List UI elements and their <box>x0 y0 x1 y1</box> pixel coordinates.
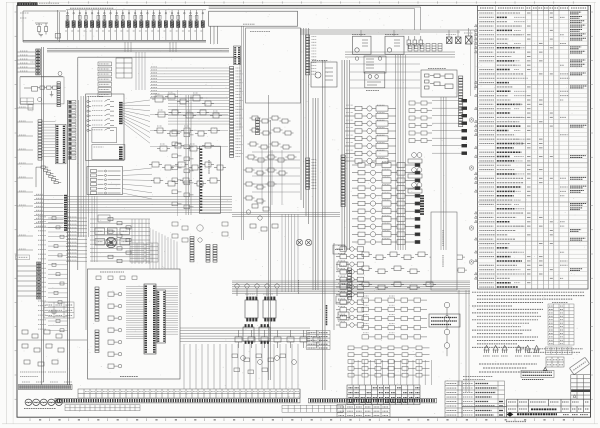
title block bottom right cells text <box>563 414 588 416</box>
relay block switch rows <box>87 100 114 132</box>
left feed wires to lamp array <box>58 10 60 42</box>
bottom margin zone ticks <box>30 418 573 421</box>
interface box right <box>421 70 457 97</box>
relay block lower outline <box>87 167 123 195</box>
left inner vertical bus pair <box>68 100 70 385</box>
feeder wire drops right <box>415 7 421 30</box>
center upper connector ladder B <box>206 245 217 263</box>
panel block resistor chain <box>24 86 61 91</box>
right mid connector ladder <box>459 76 463 127</box>
left margin zone ticks <box>15 12 17 399</box>
right connector ladder upper <box>306 35 310 75</box>
bottom vertical drops from mid <box>184 344 298 389</box>
revision balloon A1 <box>469 118 473 264</box>
center band fill wires <box>252 150 300 205</box>
top-right mid box C <box>364 56 386 73</box>
rotary switch circle <box>106 237 116 247</box>
relay contact label stack <box>98 62 112 96</box>
note lines above title block <box>479 364 537 372</box>
cell rows below edge strip left <box>65 405 140 411</box>
central wire row labels <box>151 67 157 97</box>
top-right relay boxes with X <box>447 36 473 44</box>
rotary switch label <box>104 234 116 236</box>
right column parts stack <box>333 245 352 320</box>
signal name small table header <box>552 302 568 304</box>
sensor box label <box>312 60 328 62</box>
company name text <box>517 413 557 415</box>
bottom right pin table entries <box>349 388 420 403</box>
parts list description second segment <box>514 17 528 282</box>
panel block test table <box>21 98 34 105</box>
notes text block <box>472 292 585 347</box>
warning note box text <box>431 318 457 325</box>
central cluster connective wires <box>150 99 228 147</box>
bottom table T2 entries <box>339 407 389 415</box>
sheet id bar side text <box>39 2 59 4</box>
driver output dark blocks <box>462 99 468 155</box>
node circle A <box>58 72 62 76</box>
display unit large box <box>246 28 301 103</box>
center bottom small parts <box>246 204 278 231</box>
vertical wires right of MCU <box>282 214 298 292</box>
package spec mini table <box>546 357 564 367</box>
driver row group lower labels <box>382 161 390 238</box>
lamp bus drop stubs <box>125 42 176 52</box>
central connector ladder labels <box>236 68 243 157</box>
left small test table entries <box>46 305 73 316</box>
mid connector cell band <box>78 389 300 398</box>
parts list row lines <box>478 15 589 285</box>
paired relay coil circles column <box>408 153 422 193</box>
small parts under optos <box>232 354 286 374</box>
bottom right vertical drops <box>352 360 431 385</box>
sensor box right label <box>366 90 379 92</box>
left dense row texture <box>38 217 68 332</box>
top-right lamp driver box A label <box>352 34 366 36</box>
hatched band labels above <box>22 381 72 383</box>
switch array cell grid <box>95 228 130 245</box>
central middle cluster labels <box>155 92 218 144</box>
parts columns left of tall IC <box>172 130 194 209</box>
outer margin line top <box>6 1 596 3</box>
bottom table left columns <box>445 381 462 417</box>
central vertical bus group <box>186 95 191 215</box>
MCU box top label <box>100 271 124 273</box>
small signal table entries <box>308 333 329 348</box>
center long vertical pair <box>269 95 271 380</box>
left small box upper <box>28 105 33 111</box>
relay block lower rows <box>91 170 121 195</box>
pre-connector part rows bottom <box>348 346 430 377</box>
outer margin line bottom <box>2 423 598 425</box>
relay block inner sub-box B <box>92 145 125 160</box>
contact grid B <box>146 243 158 262</box>
bottom margin zone numerals <box>39 419 565 421</box>
central wire rows to ladder <box>150 68 230 124</box>
top margin zone ticks <box>30 1 573 3</box>
lamp array bottom bus <box>23 39 206 41</box>
sheet id bar text <box>19 3 37 5</box>
mid-left ladder to IC wires <box>42 121 56 156</box>
edition note box <box>521 370 554 377</box>
revision history dark row <box>571 389 590 392</box>
bottom center sparse circles <box>241 356 297 365</box>
sensor box left <box>311 62 337 87</box>
revision history grid <box>571 375 591 399</box>
small box above rotary <box>98 215 110 222</box>
right horizontal bundle crossing <box>232 281 470 294</box>
central bus bundle horizontal <box>47 49 229 52</box>
optocoupler labels <box>245 293 255 295</box>
upper right small part rows <box>409 101 432 143</box>
parts list revision triangles <box>475 24 478 279</box>
top-right lamp driver box B <box>385 36 404 54</box>
relay block upper outline <box>86 94 124 161</box>
top-left ground symbol <box>39 35 43 37</box>
connector CN ladder upper-left <box>36 49 40 75</box>
right vertical bundle D <box>396 55 406 250</box>
staircase resistor chain <box>36 166 61 187</box>
right vertical bus bundle B <box>313 98 318 290</box>
warning note box mid-right <box>429 314 460 327</box>
left frame stub labels <box>19 107 26 249</box>
panel block variable resistor circle <box>38 97 42 101</box>
long vertical wire at dashed border <box>177 90 179 216</box>
left parts-used table <box>462 381 505 417</box>
right vertical bundle E <box>441 97 446 250</box>
top-right lamp driver box B label <box>385 34 399 36</box>
parts list part-number column entries <box>479 13 495 287</box>
top-right lamp circles <box>355 57 359 61</box>
MCU block label <box>120 376 138 378</box>
upper right note text lines <box>520 349 583 353</box>
transformer circles row <box>25 399 62 405</box>
cell rows below edge strip right <box>282 405 343 412</box>
top-right small parts cluster <box>407 36 423 49</box>
bottom left horizontal wire rows <box>66 218 87 261</box>
parts list group separator lines <box>478 45 589 280</box>
outer margin line left second <box>12 2 14 424</box>
right connector ladder upper labels <box>312 37 317 75</box>
left-center wire rows below bus <box>90 219 150 261</box>
parts list table outline <box>478 6 589 290</box>
bottom-left sparse area components <box>22 330 64 366</box>
driver row group upper <box>345 106 396 164</box>
top-left corner labels <box>20 12 29 14</box>
transistor pinout symbols <box>484 346 539 354</box>
center upper connector ladder A <box>190 237 194 262</box>
left vertical bus pair <box>42 47 44 385</box>
bottom right pin tables <box>347 385 420 405</box>
top-right small connector grid <box>408 44 442 52</box>
bottom table left column entries <box>447 384 457 416</box>
label box stack right of left column <box>69 101 76 160</box>
relay block title text <box>88 96 104 98</box>
revision triangle mark <box>573 395 576 398</box>
panel block outline <box>20 77 64 104</box>
top-center box stub wires <box>211 26 218 44</box>
bottom bus rows of center <box>66 197 232 213</box>
net label on left vertical wire <box>298 280 300 294</box>
bottom mid second strip <box>309 398 437 403</box>
control board outline left <box>77 57 79 270</box>
bottom-left lower text rows <box>20 372 66 377</box>
outer margin line right <box>594 2 596 424</box>
right lower vertical wires <box>459 290 469 392</box>
top-right lamp driver box A <box>353 36 372 54</box>
relay block inner sub-box B label <box>94 146 104 148</box>
central middle component cluster <box>152 94 222 151</box>
bottom-left divider line <box>17 339 87 341</box>
right connector ladder lower labels <box>312 160 317 189</box>
interface box right label <box>428 68 446 70</box>
outer margin line left <box>6 2 8 424</box>
label box stack texts <box>69 102 75 157</box>
lower-left wire row labels <box>36 194 43 226</box>
right margin zone ticks <box>591 12 594 399</box>
edition note box text <box>523 372 553 375</box>
panel block pin ladder <box>57 82 60 107</box>
tall driver IC label <box>208 160 210 174</box>
edition note extra line <box>522 379 544 381</box>
upper right wire bundle horizontal <box>345 52 455 57</box>
center vertical bus pair long <box>323 60 326 390</box>
left-center wire row ticks <box>108 217 131 262</box>
parts list description column entries <box>497 13 524 287</box>
signal name small table <box>548 304 574 345</box>
title block cell texts <box>508 402 589 409</box>
relay block switch labels <box>92 101 103 130</box>
schematic right boundary wire <box>470 30 472 96</box>
cluster above MCU box <box>172 222 228 242</box>
MCU transistor group <box>108 292 122 368</box>
signal name small table entries <box>549 306 563 344</box>
parts list qty and ref column entries <box>527 13 570 283</box>
lamp array components <box>65 10 204 41</box>
drops into MCU block top <box>150 228 177 269</box>
top-left resistor labels <box>36 24 42 26</box>
top-right relay labels <box>446 34 456 36</box>
optocoupler IC pair <box>245 297 276 321</box>
right vertical bus bundle C <box>342 60 350 250</box>
control board outline right <box>239 57 241 130</box>
resistor network row labels <box>363 296 395 333</box>
center mid ladder small <box>256 118 260 135</box>
center mid parts cluster lower <box>244 155 297 203</box>
right cluster box rows <box>430 255 468 288</box>
transistor pinout labels <box>483 355 540 357</box>
vertical ladder in right block <box>348 268 352 299</box>
driver output wires <box>432 101 462 154</box>
mid-left extra verticals <box>92 196 97 262</box>
frame-edge input wire labels <box>20 51 28 71</box>
main MCU block outline <box>88 269 181 379</box>
panel block ground <box>50 91 54 97</box>
sub block outline right of MCU <box>333 243 335 330</box>
MCU left connector ladders <box>95 287 99 353</box>
parts list remarks column dark entries <box>570 12 587 270</box>
left feed component <box>55 34 60 39</box>
right vertical bus bundle A <box>301 28 309 224</box>
connector ladder mid-left <box>38 120 42 160</box>
left parts-used table entries <box>463 384 503 416</box>
left margin label box <box>16 255 30 260</box>
left small test table <box>44 302 74 318</box>
sheet id black bar <box>17 2 37 5</box>
tall white module box right <box>431 212 457 290</box>
bottom hatched connector band <box>19 385 73 390</box>
left parts-used table header texts <box>463 376 493 378</box>
control board outline top <box>78 56 240 58</box>
mid connector cell texts <box>85 391 299 393</box>
central lower parts cluster <box>149 162 226 186</box>
lower right dense cell labels <box>338 246 345 322</box>
top horizontal feeder wires <box>209 7 421 9</box>
parts list table column lines <box>496 6 569 290</box>
main MCU IC dark pin strip <box>144 284 156 354</box>
top-right connecting wires <box>300 28 475 90</box>
lower right dense cell rows <box>336 247 364 327</box>
vertical net label strip <box>326 305 328 326</box>
relay block pin ladder lower <box>119 147 123 160</box>
approval stamp rotated <box>569 357 589 374</box>
third optocoupler pair <box>243 324 270 343</box>
center vertical wire pair <box>242 26 244 240</box>
central IC dark strip <box>234 46 241 65</box>
top-center interconnect box label <box>243 23 255 25</box>
bottom center wire rows <box>180 328 310 342</box>
lower-left pin dots column <box>64 195 67 231</box>
fan-out diagonal wires lower <box>123 168 153 199</box>
relay coil pins column <box>420 195 424 215</box>
IC dark pin strip mid-left <box>56 124 67 164</box>
relay block pin ladder upper <box>119 102 123 124</box>
bottom left wire labels <box>68 217 77 260</box>
top-center interconnect box <box>209 11 298 26</box>
tall driver IC <box>199 146 220 213</box>
resistor network rows right-bottom <box>362 298 427 339</box>
small signal table bottom center <box>307 331 331 350</box>
bottom table T2 <box>337 405 390 418</box>
speaker circles center <box>296 239 311 245</box>
right connector ladder lower <box>306 158 310 189</box>
transformer circles caption <box>24 408 56 410</box>
sheet number text below frame <box>506 421 526 423</box>
title block drawing title <box>531 408 557 410</box>
bottom small part row mid <box>235 330 320 348</box>
package code table <box>546 347 573 355</box>
title block grid <box>462 399 591 417</box>
driver row group upper labels <box>346 105 385 158</box>
MCU pin wires to IC <box>126 287 144 339</box>
mid horizontal bundle extension <box>232 213 340 217</box>
center mid parts cluster upper <box>248 116 294 149</box>
MCU box top parts row <box>96 276 137 279</box>
panel block divider line <box>20 75 63 77</box>
driver row group lower <box>352 162 420 244</box>
right lower cluster boxes <box>359 252 436 290</box>
relay block inner sub-box A <box>92 128 117 143</box>
tall driver IC pins <box>200 149 202 211</box>
relay contact cell grid <box>116 58 132 78</box>
lower-left wire rows <box>34 196 64 228</box>
left lower frame wires <box>17 266 36 296</box>
right node reference circles <box>444 302 450 356</box>
display unit box label <box>250 31 270 33</box>
contact grid A <box>130 243 144 262</box>
top-left resistor pair <box>35 23 48 35</box>
warning triangle near table <box>543 367 547 370</box>
lamp array title line <box>66 9 206 11</box>
central connector ladder <box>230 67 234 158</box>
sensor box right <box>365 72 385 88</box>
package spec mini table texts <box>547 360 563 365</box>
connector ladder labels <box>31 56 35 68</box>
transistor pair row above optos <box>235 284 279 296</box>
upper right area extra wires <box>350 64 420 88</box>
fan-out diagonal wires upper <box>122 100 150 143</box>
MCU right wires <box>156 287 178 335</box>
ladder column mid right <box>341 155 345 207</box>
left lower connector dark strip <box>37 262 41 299</box>
left margin label text <box>17 256 28 258</box>
lamp array left riser <box>22 11 24 42</box>
parts list header row <box>478 10 589 12</box>
lamp array title text <box>70 7 114 9</box>
long edge connector pin strip <box>55 398 300 403</box>
left frame stub wires mid <box>17 108 33 250</box>
upper mid extra verticals <box>136 52 145 90</box>
frame-edge input wires <box>17 52 35 72</box>
drops from left-center rows <box>132 219 149 264</box>
MCU secondary IC strip <box>157 290 166 343</box>
left long vertical buses <box>79 96 89 330</box>
company logo diamond <box>507 412 514 416</box>
lamp array top feed line <box>23 10 66 12</box>
tall white module box label <box>442 230 444 267</box>
